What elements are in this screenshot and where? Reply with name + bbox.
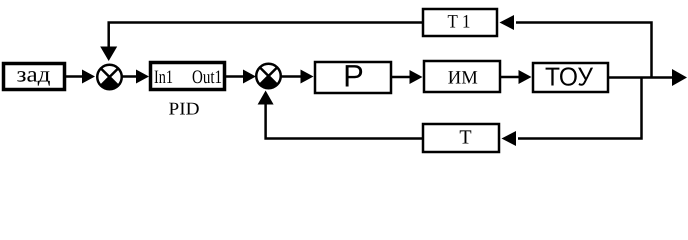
- svg-text:Т 1: Т 1: [448, 12, 471, 33]
- svg-text:Р: Р: [343, 59, 364, 94]
- svg-text:ИМ: ИМ: [448, 68, 478, 89]
- svg-text:ТОУ: ТОУ: [545, 61, 593, 91]
- svg-text:зад: зад: [17, 62, 51, 87]
- svg-text:Т: Т: [459, 127, 471, 149]
- svg-text:In1: In1: [154, 67, 173, 88]
- svg-text:PID: PID: [169, 99, 200, 119]
- svg-text:Out1: Out1: [192, 67, 222, 88]
